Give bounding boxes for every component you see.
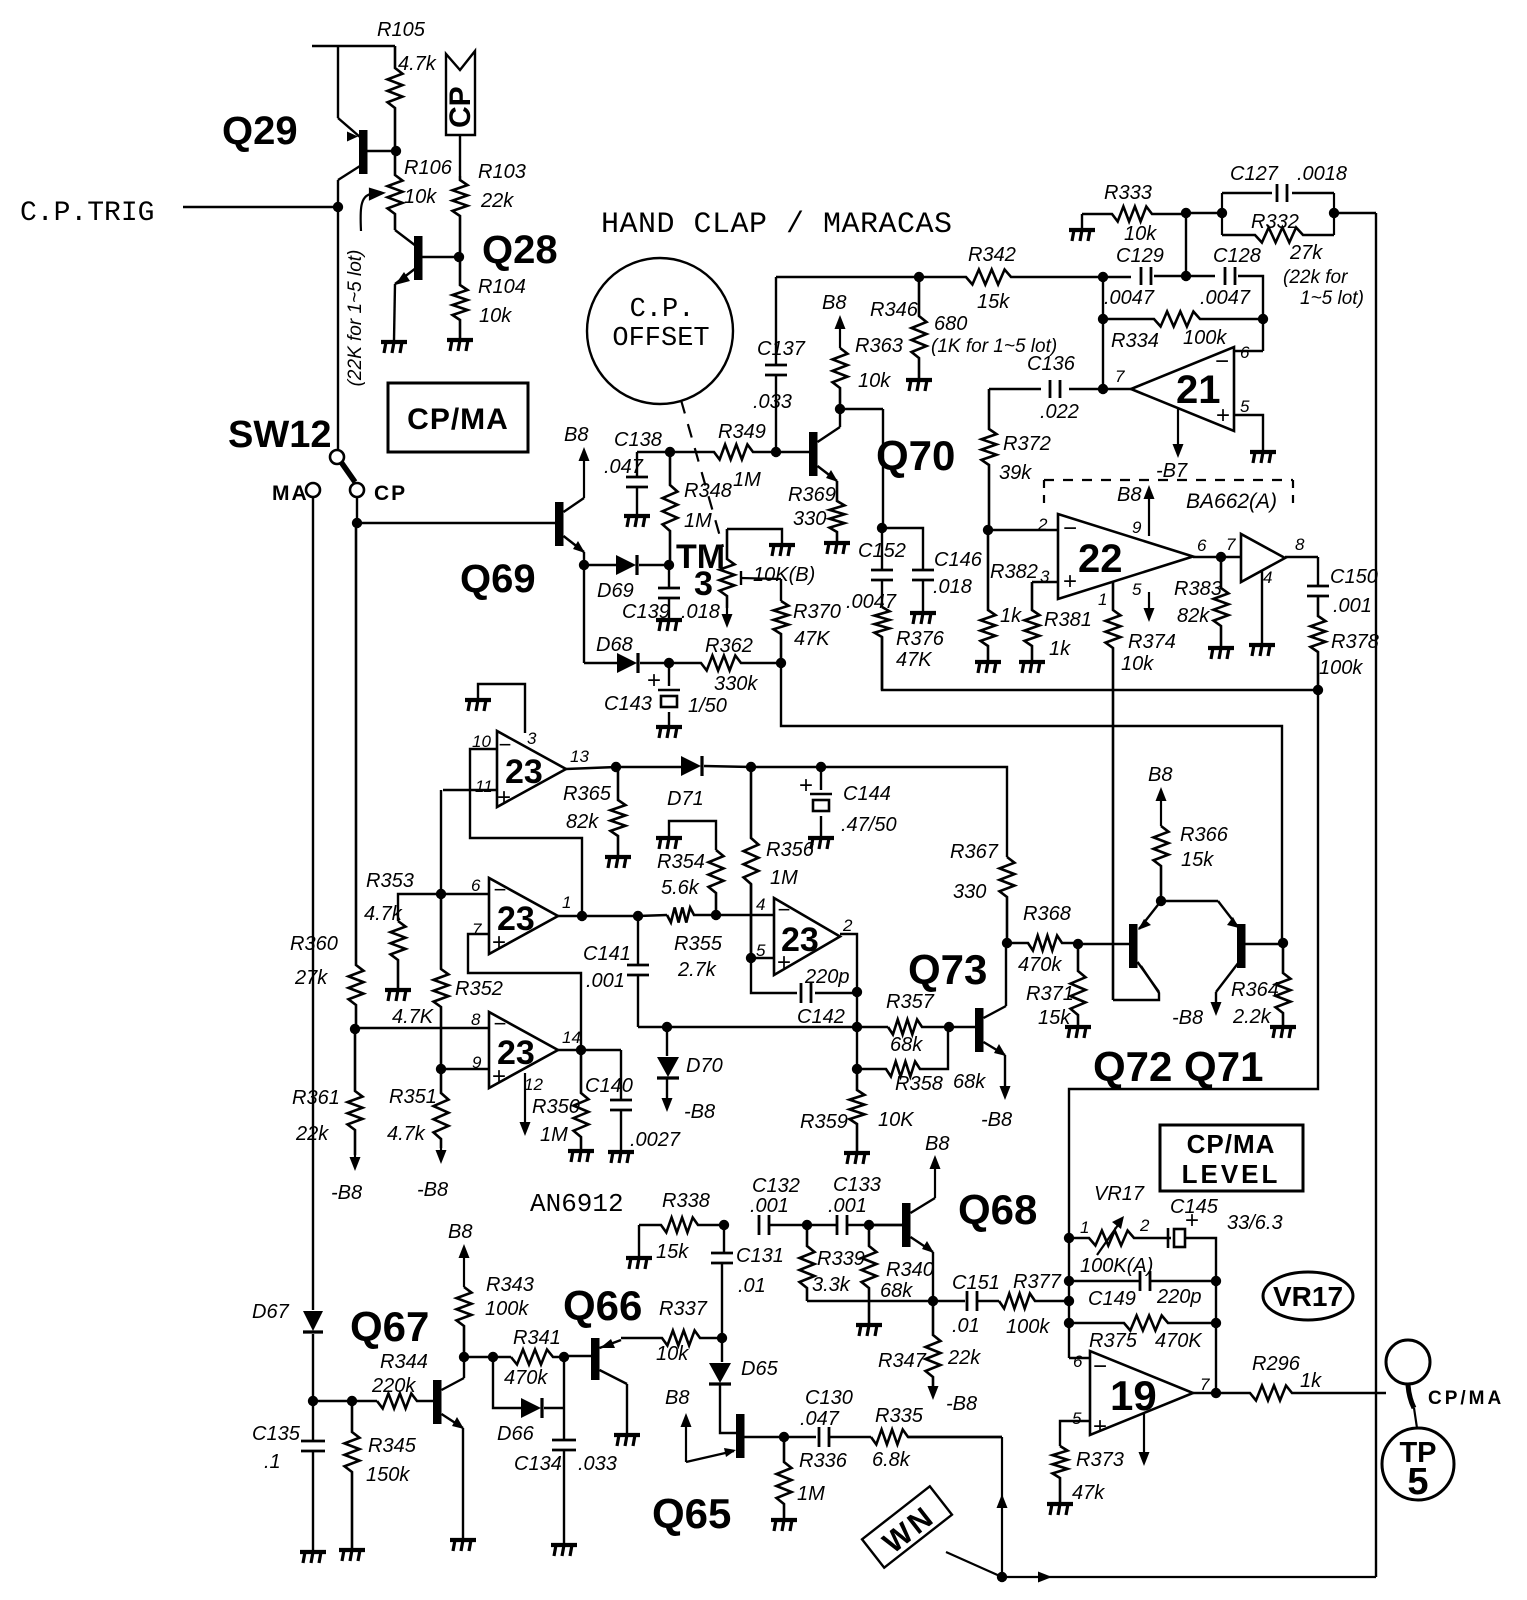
wire Q73 collector lead bbox=[1005, 943, 1007, 1006]
wire C139 bottom lead bbox=[668, 598, 670, 618]
ground C140 bbox=[608, 1152, 634, 1163]
capacitor C142 bbox=[801, 983, 811, 1003]
diode D65 bbox=[709, 1363, 731, 1384]
svg-text:OFFSET: OFFSET bbox=[612, 324, 709, 354]
trimmer TM3 wiper bbox=[741, 571, 781, 585]
parallel block C127 R332 left post bbox=[1221, 193, 1223, 235]
supply arrow op19 -B8 bbox=[1139, 1414, 1150, 1466]
wire pin11 node vertical bbox=[440, 790, 442, 894]
terminal CP/MA lever tip bbox=[1414, 1408, 1417, 1428]
svg-text:27k: 27k bbox=[1289, 242, 1323, 264]
svg-text:CP/MA: CP/MA bbox=[1187, 1129, 1276, 1159]
wire mirror emitters bbox=[1161, 900, 1218, 902]
junction C144 top bbox=[816, 762, 826, 772]
resistor R346 bbox=[912, 277, 927, 378]
svg-text:-B8: -B8 bbox=[331, 1182, 362, 1204]
svg-text:Q69: Q69 bbox=[460, 557, 536, 601]
svg-text:9: 9 bbox=[1132, 518, 1142, 537]
svg-text:10k: 10k bbox=[404, 186, 437, 208]
svg-text:1k: 1k bbox=[1300, 1370, 1322, 1392]
wire R356 bottom to pin5 bbox=[750, 884, 752, 958]
transistor Q70 bbox=[776, 427, 840, 482]
svg-text:C149: C149 bbox=[1088, 1288, 1136, 1310]
wire node down to SW12 bbox=[337, 207, 339, 450]
capacitor C144 bbox=[810, 794, 832, 811]
op-amp 23c bbox=[489, 1012, 558, 1088]
wire C136 right lead bbox=[1069, 388, 1103, 390]
junction R375 left bbox=[1064, 1318, 1074, 1328]
supply arrow op22 pin5 bbox=[1144, 592, 1155, 622]
resistor R354 bbox=[709, 850, 724, 915]
svg-text:C141: C141 bbox=[583, 943, 631, 965]
svg-text:.47/50: .47/50 bbox=[841, 814, 897, 836]
junction WN node bbox=[997, 1572, 1007, 1582]
svg-text:R377: R377 bbox=[1013, 1271, 1062, 1293]
junction R341 left bbox=[488, 1352, 498, 1362]
svg-text:R382: R382 bbox=[990, 561, 1038, 583]
supply arrow R351 -B8 bbox=[436, 1148, 447, 1164]
svg-text:R355: R355 bbox=[674, 933, 723, 955]
svg-text:22k: 22k bbox=[947, 1347, 981, 1369]
svg-text:−: − bbox=[1063, 515, 1077, 542]
dashed box BA662 right bbox=[1292, 480, 1294, 503]
wire R349 node left bbox=[637, 451, 670, 453]
capacitor C145 bbox=[1168, 1228, 1185, 1248]
wire C.P.TRIG to Q29 node bbox=[183, 206, 338, 208]
wire C133 to Q68 base bbox=[847, 1224, 902, 1226]
wire C144 bottom lead bbox=[820, 816, 822, 836]
svg-text:R371: R371 bbox=[1026, 983, 1074, 1005]
wire Q68 emitter to C151 bbox=[933, 1300, 965, 1302]
svg-text:-B8: -B8 bbox=[1172, 1007, 1203, 1029]
svg-text:R332: R332 bbox=[1251, 211, 1299, 233]
svg-text:Q65: Q65 bbox=[652, 1490, 731, 1537]
capacitor C149 bbox=[1140, 1271, 1150, 1291]
wire pin5 lead op19 bbox=[1060, 1421, 1090, 1446]
junction R362 right node bbox=[776, 658, 786, 668]
ground R373 bbox=[1047, 1504, 1073, 1515]
wire collector node down bbox=[882, 409, 884, 528]
svg-text:+: + bbox=[492, 929, 506, 956]
ground C144 bbox=[808, 838, 834, 849]
svg-text:C134: C134 bbox=[514, 1453, 562, 1475]
junction op23d pin5 node bbox=[746, 953, 756, 963]
svg-text:C146: C146 bbox=[934, 549, 983, 571]
supply arrow B8 Q68 bbox=[930, 1155, 941, 1198]
junction C149 right bbox=[1211, 1276, 1221, 1286]
junction R360 bottom node bbox=[350, 1024, 360, 1034]
svg-text:12: 12 bbox=[524, 1075, 543, 1094]
svg-text:B8: B8 bbox=[925, 1133, 949, 1155]
junction R339 top node bbox=[802, 1220, 812, 1230]
svg-text:R335: R335 bbox=[875, 1405, 924, 1427]
trimmer VR17 wiper arrow bbox=[1097, 1216, 1124, 1255]
junction C149 left bbox=[1064, 1276, 1074, 1286]
ground op21 pin5 bbox=[1250, 452, 1276, 463]
ground TM3 top bbox=[769, 545, 795, 556]
svg-text:−: − bbox=[494, 1011, 507, 1036]
resistor R369 bbox=[830, 481, 845, 543]
junction op23c out bbox=[576, 1045, 586, 1055]
wire R358 right up bbox=[921, 1027, 948, 1069]
wire C144 top lead bbox=[820, 767, 822, 790]
svg-text:.033: .033 bbox=[578, 1453, 617, 1475]
ground Q28 emitter bbox=[381, 342, 407, 353]
wire CP flag to R103 bbox=[459, 135, 461, 176]
svg-text:82k: 82k bbox=[566, 811, 599, 833]
wire D66 left leg bbox=[493, 1357, 521, 1408]
ground C134 bbox=[551, 1545, 577, 1556]
capacitor C129 bbox=[1141, 267, 1151, 285]
wire C146 branch bbox=[882, 528, 923, 570]
wire C145 to right post bbox=[1185, 1238, 1216, 1393]
transistor Q73 bbox=[949, 1006, 1006, 1056]
svg-text:R344: R344 bbox=[380, 1351, 428, 1373]
flag CP bbox=[446, 51, 475, 135]
wire Q70 collector lead bbox=[839, 409, 841, 427]
resistor R363 bbox=[833, 348, 848, 409]
svg-text:.047: .047 bbox=[604, 456, 644, 478]
junction op22 pin2 node bbox=[983, 525, 993, 535]
wire R333 node to C127 node bbox=[1186, 212, 1222, 214]
svg-text:R381: R381 bbox=[1044, 609, 1092, 631]
svg-text:R105: R105 bbox=[377, 19, 426, 41]
junction C127 right bbox=[1329, 208, 1339, 218]
resistor R372 bbox=[982, 389, 997, 530]
resistor R104 bbox=[453, 257, 468, 338]
svg-text:C135: C135 bbox=[252, 1423, 301, 1445]
svg-text:47K: 47K bbox=[896, 649, 933, 671]
wire D69 left lead bbox=[584, 564, 616, 566]
svg-text:-B8: -B8 bbox=[946, 1393, 977, 1415]
svg-text:10K(B): 10K(B) bbox=[753, 564, 815, 586]
bus bottom with arrow bbox=[1002, 1572, 1376, 1583]
test point TP5 circle bbox=[1382, 1428, 1454, 1500]
wire C139 top lead bbox=[668, 565, 670, 588]
svg-text:47K: 47K bbox=[794, 628, 831, 650]
svg-text:19: 19 bbox=[1110, 1372, 1157, 1419]
svg-text:R366: R366 bbox=[1180, 824, 1229, 846]
dashed box BA662 top bbox=[1044, 479, 1293, 481]
svg-text:R296: R296 bbox=[1252, 1353, 1301, 1375]
svg-text:R347: R347 bbox=[878, 1350, 927, 1372]
trimmer VR17 bbox=[1069, 1231, 1171, 1246]
junction R377 right node bbox=[1064, 1296, 1074, 1306]
svg-text:C128: C128 bbox=[1213, 245, 1261, 267]
svg-text:.0047: .0047 bbox=[1200, 287, 1251, 309]
supply arrow B8 Q67 bbox=[459, 1244, 470, 1287]
capacitor C151 bbox=[967, 1291, 977, 1311]
trimmer TM3 bbox=[720, 529, 735, 608]
wire C135 top lead bbox=[312, 1401, 314, 1440]
diode D69 bbox=[616, 555, 637, 575]
supply arrow B8 Q69 bbox=[579, 447, 590, 498]
svg-text:68k: 68k bbox=[880, 1280, 913, 1302]
wire op23a pin10 feedback bbox=[470, 749, 582, 916]
wire R333 node down bbox=[1185, 213, 1187, 276]
svg-text:10k: 10k bbox=[1121, 653, 1154, 675]
wire pin5 lead bbox=[1234, 415, 1263, 450]
ground R364 bbox=[1270, 1027, 1296, 1038]
svg-text:33/6.3: 33/6.3 bbox=[1227, 1212, 1283, 1234]
switch SW12 lever bbox=[341, 462, 355, 482]
wire C149 left bbox=[1069, 1280, 1139, 1282]
junction C152 top bbox=[877, 523, 887, 533]
junction R368 left bbox=[1002, 938, 1012, 948]
svg-text:22k: 22k bbox=[480, 190, 514, 212]
svg-text:1~5 lot): 1~5 lot) bbox=[1300, 288, 1364, 309]
op-amp 21 bbox=[1131, 347, 1234, 431]
svg-text:10K: 10K bbox=[878, 1109, 915, 1131]
svg-text:C136: C136 bbox=[1027, 353, 1076, 375]
svg-text:R358: R358 bbox=[895, 1073, 943, 1095]
op-amp 19 bbox=[1090, 1351, 1193, 1435]
junction R337 right bbox=[717, 1333, 727, 1343]
wire op23b out bbox=[558, 915, 638, 917]
svg-text:680: 680 bbox=[934, 313, 967, 335]
dashed box BA662 left bbox=[1043, 480, 1045, 503]
svg-text:4: 4 bbox=[1263, 568, 1272, 587]
wire op23b pin6 lead bbox=[441, 893, 489, 895]
wire R338 ground stub bbox=[638, 1225, 640, 1256]
svg-text:.033: .033 bbox=[753, 391, 792, 413]
wire D70 top lead bbox=[666, 1027, 668, 1056]
resistor R337 bbox=[621, 1331, 722, 1346]
wire R368 to Q72 base bbox=[1078, 943, 1129, 945]
wire to right rail bbox=[1334, 212, 1376, 214]
svg-text:6: 6 bbox=[471, 876, 481, 895]
wire C127 top branch left bbox=[1222, 192, 1272, 194]
svg-text:R337: R337 bbox=[659, 1298, 708, 1320]
transistor Q29 bbox=[338, 118, 396, 180]
svg-text:.1: .1 bbox=[264, 1451, 281, 1473]
svg-text:−: − bbox=[494, 877, 507, 902]
wire C131 down bbox=[723, 1225, 725, 1252]
wire C152 to R376 bbox=[881, 580, 883, 607]
svg-text:BA662(A): BA662(A) bbox=[1186, 490, 1277, 513]
svg-text:470k: 470k bbox=[504, 1367, 548, 1389]
svg-text:SW12: SW12 bbox=[228, 414, 331, 456]
svg-text:R354: R354 bbox=[657, 851, 705, 873]
wire C143 bottom lead bbox=[668, 712, 670, 726]
diode D71 bbox=[681, 756, 702, 776]
wire D68 left lead bbox=[584, 662, 617, 664]
svg-text:R363: R363 bbox=[855, 335, 903, 357]
svg-text:(22K for 1~5 lot): (22K for 1~5 lot) bbox=[345, 250, 366, 387]
svg-text:HAND CLAP / MARACAS: HAND CLAP / MARACAS bbox=[601, 208, 953, 242]
wire C129 to C128 bbox=[1154, 275, 1215, 277]
svg-text:.047: .047 bbox=[800, 1408, 840, 1430]
svg-text:R368: R368 bbox=[1023, 903, 1071, 925]
capacitor C143 bbox=[658, 690, 680, 707]
wire wiper down bbox=[780, 579, 782, 601]
trimmer TM3 bottom arrow bbox=[722, 608, 733, 628]
svg-text:1M: 1M bbox=[684, 510, 712, 532]
svg-text:.018: .018 bbox=[933, 576, 972, 598]
supply arrow Q73 -B8 bbox=[1000, 1086, 1011, 1100]
svg-text:R370: R370 bbox=[793, 601, 841, 623]
junction Q28 base node bbox=[454, 252, 464, 262]
wire CP node to Q69 base bbox=[357, 522, 556, 524]
ground R381 bbox=[1019, 662, 1045, 673]
junction R333 right bbox=[1181, 208, 1191, 218]
resistor R353 bbox=[391, 921, 406, 988]
wire rail D71 to C144 bbox=[751, 766, 821, 768]
svg-text:39k: 39k bbox=[999, 462, 1032, 484]
svg-text:B8: B8 bbox=[1148, 764, 1172, 786]
svg-text:.0047: .0047 bbox=[1104, 287, 1155, 309]
wire Q67 collector lead bbox=[463, 1357, 465, 1378]
svg-text:100k: 100k bbox=[1183, 327, 1227, 349]
transistor Q69 bbox=[555, 498, 585, 553]
svg-text:D65: D65 bbox=[741, 1358, 779, 1380]
svg-text:8: 8 bbox=[471, 1010, 481, 1029]
svg-text:D69: D69 bbox=[597, 580, 634, 602]
terminal CP/MA lever bbox=[1408, 1385, 1414, 1408]
svg-text:R378: R378 bbox=[1331, 631, 1379, 653]
flag WN bbox=[862, 1486, 953, 1569]
svg-text:R339: R339 bbox=[817, 1248, 865, 1270]
junction R334 left bbox=[1098, 314, 1108, 324]
wire C129 node down bbox=[1102, 277, 1104, 389]
svg-text:.001: .001 bbox=[1333, 595, 1372, 617]
svg-text:22k: 22k bbox=[295, 1123, 329, 1145]
wire Q73 emitter lead bbox=[1004, 1055, 1006, 1086]
svg-text:1: 1 bbox=[562, 893, 571, 912]
svg-text:R364: R364 bbox=[1231, 979, 1279, 1001]
svg-text:1k: 1k bbox=[1000, 605, 1022, 627]
svg-text:Q70: Q70 bbox=[876, 432, 955, 479]
svg-text:82k: 82k bbox=[1177, 605, 1210, 627]
resistor R377 bbox=[999, 1294, 1069, 1309]
wire pin6 lead bbox=[1234, 350, 1263, 352]
svg-text:3: 3 bbox=[527, 729, 537, 748]
wire R353 top bbox=[398, 894, 441, 921]
svg-text:15k: 15k bbox=[656, 1241, 689, 1263]
junction R378 bottom bbox=[1313, 685, 1323, 695]
svg-text:C138: C138 bbox=[614, 429, 662, 451]
ground R365 bbox=[605, 857, 631, 868]
resistor R357 bbox=[888, 1020, 949, 1035]
svg-text:.022: .022 bbox=[1040, 401, 1079, 423]
svg-text:8: 8 bbox=[1295, 535, 1305, 554]
ground R359 bbox=[844, 1153, 870, 1164]
box CP/MA LEVEL bbox=[1160, 1125, 1303, 1191]
wire C130 to R335 bbox=[829, 1436, 871, 1438]
capacitor C152 bbox=[871, 570, 893, 580]
svg-text:.001: .001 bbox=[750, 1195, 789, 1217]
svg-text:VR17: VR17 bbox=[1094, 1183, 1145, 1205]
svg-text:1: 1 bbox=[1098, 590, 1107, 609]
capacitor C133 bbox=[837, 1215, 847, 1235]
resistor R383 bbox=[1214, 557, 1229, 646]
ground C143 bbox=[656, 727, 682, 738]
wire MA contact down long bbox=[312, 497, 314, 1310]
svg-text:D66: D66 bbox=[497, 1423, 535, 1445]
resistor R296 bbox=[1216, 1386, 1386, 1401]
wire C140 bottom lead bbox=[620, 1110, 622, 1150]
svg-text:.001: .001 bbox=[586, 970, 625, 992]
resistor R338 bbox=[639, 1218, 724, 1233]
junction op21 pin7 node bbox=[1098, 384, 1108, 394]
junction R383 top bbox=[1216, 552, 1226, 562]
svg-text:6: 6 bbox=[1240, 343, 1250, 362]
wire buffer out bbox=[1285, 556, 1318, 558]
svg-text:5: 5 bbox=[1072, 1409, 1082, 1428]
wire C152 top lead bbox=[881, 528, 883, 570]
svg-text:−: − bbox=[1093, 1353, 1107, 1380]
wire Q66 collector ground bbox=[626, 1384, 628, 1433]
svg-text:47k: 47k bbox=[1072, 1482, 1105, 1504]
resistor R345 bbox=[345, 1401, 360, 1548]
resistor R347 bbox=[926, 1301, 941, 1386]
svg-text:B8: B8 bbox=[665, 1387, 689, 1409]
supply arrow D70 -B8 bbox=[662, 1098, 673, 1112]
svg-text:CP/MA: CP/MA bbox=[1428, 1388, 1504, 1409]
svg-text:Q67: Q67 bbox=[350, 1303, 429, 1350]
svg-text:1M: 1M bbox=[540, 1124, 568, 1146]
svg-text:10k: 10k bbox=[656, 1343, 689, 1365]
junction D68 right node bbox=[664, 658, 674, 668]
wire C140 top lead bbox=[620, 1050, 622, 1100]
svg-text:5.6k: 5.6k bbox=[661, 877, 700, 899]
resistor R334 bbox=[1103, 312, 1263, 327]
wire op23b pin7 loop bbox=[468, 934, 581, 1049]
ground buffer pin4 bbox=[1249, 645, 1275, 656]
junction R343 bottom bbox=[459, 1352, 469, 1362]
wire C131 bottom lead bbox=[721, 1263, 723, 1338]
junction rail x857 bbox=[852, 1022, 862, 1032]
wire CP contact down bbox=[356, 497, 358, 523]
svg-text:R352: R352 bbox=[455, 978, 503, 1000]
wire C137 top lead bbox=[775, 277, 777, 365]
svg-text:7: 7 bbox=[1200, 1375, 1210, 1394]
svg-text:4.7k: 4.7k bbox=[398, 53, 437, 75]
resistor R336 bbox=[777, 1437, 792, 1518]
wire Q70 collector over bbox=[840, 408, 883, 410]
wire C127 top branch right bbox=[1292, 192, 1334, 194]
ground R333 bbox=[1069, 230, 1095, 241]
ground Q66 collector bbox=[614, 1435, 640, 1446]
svg-text:R103: R103 bbox=[478, 161, 526, 183]
junction C132 left node bbox=[719, 1220, 729, 1230]
junction C127 left bbox=[1217, 208, 1227, 218]
capacitor C141 bbox=[627, 965, 649, 975]
op-amp 23b bbox=[489, 878, 558, 954]
resistor R335 bbox=[871, 1430, 1002, 1445]
ground R350 bbox=[568, 1151, 594, 1162]
svg-text:7: 7 bbox=[1115, 367, 1125, 386]
resistor R365 bbox=[611, 767, 626, 855]
junction D69 right node bbox=[664, 560, 674, 570]
bus upper feedback bbox=[882, 637, 1318, 690]
wire op23a pin11 lead bbox=[443, 789, 497, 791]
ground R340 bbox=[856, 1325, 882, 1336]
svg-text:150k: 150k bbox=[366, 1464, 410, 1486]
wire Q29 emitter lead bbox=[337, 46, 339, 118]
supply arrow R361 -B8 bbox=[350, 1155, 361, 1171]
transistor Q65 bbox=[686, 1414, 784, 1462]
wire C134 bottom lead bbox=[563, 1450, 565, 1543]
ground R336 bbox=[771, 1520, 797, 1531]
svg-text:.001: .001 bbox=[828, 1195, 867, 1217]
wire C128 right bbox=[1238, 276, 1263, 351]
svg-text:+: + bbox=[1063, 568, 1077, 595]
ground R338 bbox=[626, 1258, 652, 1269]
svg-text:AN6912: AN6912 bbox=[530, 1189, 624, 1219]
junction Q70 base node bbox=[771, 447, 781, 457]
wire right rail long vertical bbox=[1375, 213, 1377, 1577]
